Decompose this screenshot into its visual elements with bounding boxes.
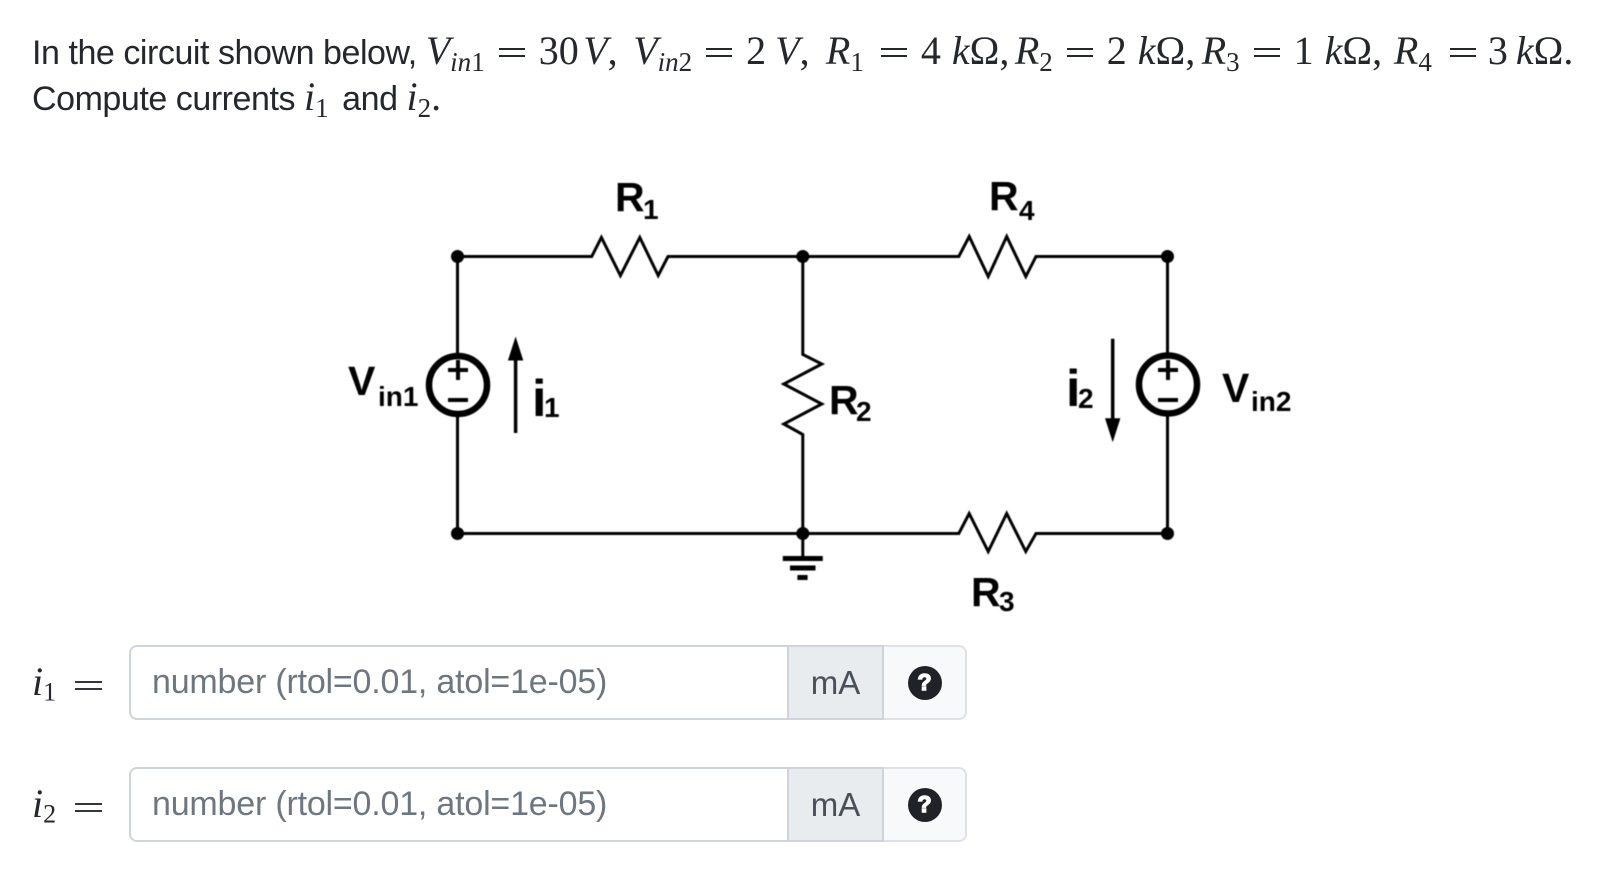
svg-text:V: V xyxy=(348,358,376,404)
svg-text:in1: in1 xyxy=(378,381,418,412)
svg-text:1: 1 xyxy=(544,392,560,423)
svg-text:R: R xyxy=(829,377,859,423)
svg-text:R: R xyxy=(615,174,645,220)
svg-text:2: 2 xyxy=(856,396,872,427)
svg-text:4: 4 xyxy=(1019,195,1035,226)
svg-text:2: 2 xyxy=(1078,383,1094,414)
svg-text:3: 3 xyxy=(999,586,1015,617)
svg-text:1: 1 xyxy=(643,194,659,225)
svg-text:R: R xyxy=(989,173,1019,219)
svg-text:R: R xyxy=(971,569,1001,615)
svg-text:in2: in2 xyxy=(1251,386,1291,417)
svg-text:V: V xyxy=(1222,365,1250,411)
